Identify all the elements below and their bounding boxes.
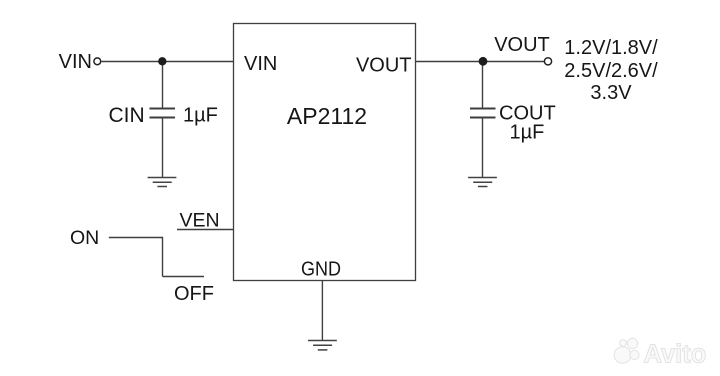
svg-text:3.3V: 3.3V [590, 82, 632, 104]
svg-text:CIN: CIN [109, 104, 145, 127]
svg-text:VOUT: VOUT [356, 55, 412, 77]
svg-text:AP2112: AP2112 [287, 103, 367, 129]
svg-text:OFF: OFF [174, 283, 214, 305]
svg-text:VIN: VIN [244, 53, 277, 75]
svg-text:1µF: 1µF [510, 122, 545, 144]
svg-text:VIN: VIN [59, 51, 92, 73]
svg-text:GND: GND [301, 259, 341, 281]
svg-text:ON: ON [70, 227, 99, 249]
svg-text:Avito: Avito [644, 341, 707, 369]
svg-text:2.5V/2.6V/: 2.5V/2.6V/ [564, 60, 658, 82]
svg-text:VEN: VEN [180, 209, 220, 231]
svg-text:1µF: 1µF [183, 105, 218, 127]
svg-text:1.2V/1.8V/: 1.2V/1.8V/ [564, 37, 658, 59]
svg-text:VOUT: VOUT [494, 34, 550, 56]
